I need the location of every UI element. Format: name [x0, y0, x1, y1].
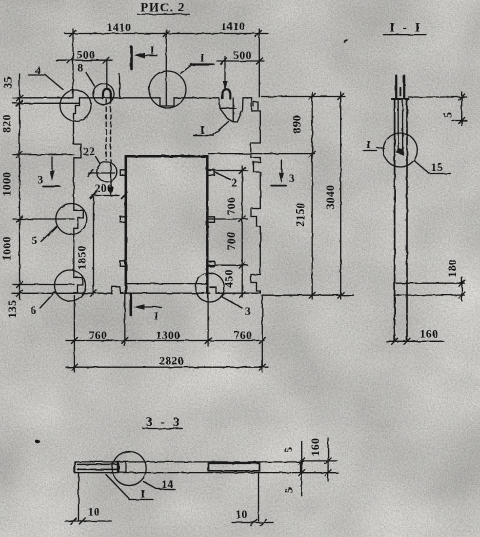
hidden loop axis (dashed pair) — [105, 100, 107, 161]
svg-text:820: 820 — [2, 114, 14, 132]
detail balloon 6 — [55, 270, 86, 301]
I-I label 15 leader — [414, 161, 429, 174]
svg-text:2820: 2820 — [159, 356, 184, 368]
I-I left wall — [394, 99, 396, 340]
right dims extension top — [262, 96, 346, 98]
I-I top cap — [392, 98, 409, 100]
unidentified short extension near loop 8 — [119, 74, 121, 98]
svg-text:180: 180 — [447, 259, 459, 277]
3-3 hanging rod right — [258, 473, 260, 521]
leader label 6 — [40, 292, 55, 309]
dim 890/2150 vertical — [311, 92, 313, 299]
svg-text:3 - 3: 3 - 3 — [146, 415, 181, 429]
svg-text:4: 4 — [35, 65, 41, 77]
top dim line 1410+1410 — [65, 33, 268, 35]
3-3 right end cap — [300, 462, 302, 473]
left edge keyway notch (detail 5) — [74, 210, 84, 277]
detail balloon 3 (bottom) — [195, 273, 224, 302]
svg-text:3: 3 — [245, 306, 251, 318]
svg-text:5: 5 — [284, 487, 296, 493]
I-I detail balloon — [383, 133, 417, 167]
svg-text:200: 200 — [95, 183, 113, 195]
svg-text:5: 5 — [443, 112, 455, 118]
section mark 3 right: arrow down — [280, 160, 282, 178]
stray mark top — [344, 40, 347, 42]
svg-text:2: 2 — [231, 178, 237, 190]
leader label 3 bottom — [222, 297, 243, 309]
leader label 8 — [86, 73, 95, 87]
3-3 strip bottom line — [75, 472, 301, 474]
right edge keyway notch (mid) — [251, 209, 260, 275]
left edge jog 22 — [74, 144, 82, 210]
bottom dim line 760/1300/760 — [66, 340, 264, 342]
panel right edge with rebate — [252, 98, 261, 143]
right edge notch A — [251, 143, 260, 162]
svg-text:I: I — [200, 53, 205, 65]
svg-text:РИС. 2: РИС. 2 — [141, 1, 186, 15]
svg-text:500: 500 — [233, 50, 251, 62]
3-3 hanging rod left — [78, 473, 80, 520]
section mark I bottom: bar — [130, 295, 133, 315]
svg-text:135: 135 — [7, 300, 19, 318]
3-3 right embedded plate — [209, 463, 260, 471]
3-3 dim 10 right — [232, 522, 273, 524]
detail balloon 5 — [56, 204, 87, 235]
svg-text:2150: 2150 — [295, 202, 307, 227]
3-3 left plate end detail — [118, 462, 127, 472]
left dim chain line — [19, 74, 21, 299]
svg-text:1410: 1410 — [107, 22, 132, 34]
svg-text:6: 6 — [30, 305, 36, 317]
detail balloon 8 — [93, 84, 114, 105]
detail balloon 1 (top edge) — [149, 71, 186, 108]
dim 500 right extension with arrow at loop — [224, 57, 226, 86]
panel left edge with corner rebate — [74, 98, 80, 144]
right edge inner corner mark — [254, 102, 259, 110]
svg-text:8: 8 — [77, 63, 83, 75]
dim 500 right — [217, 60, 264, 62]
3-3 label 14 leader — [144, 482, 161, 489]
svg-text:760: 760 — [234, 330, 252, 342]
door sill line — [127, 283, 207, 285]
svg-text:3: 3 — [37, 175, 43, 187]
I-I dim 180 line — [461, 277, 463, 301]
svg-text:10: 10 — [88, 507, 100, 519]
svg-text:I - I: I - I — [390, 21, 423, 35]
bottom extension verticals — [73, 296, 75, 373]
dim 200 line — [93, 195, 120, 197]
I-I right wall — [406, 99, 408, 341]
svg-text:10: 10 — [235, 509, 247, 521]
lifting loop right — [223, 89, 231, 98]
svg-text:I: I — [200, 125, 205, 137]
3-3 label I leader — [106, 475, 129, 499]
stray ink dot — [35, 440, 40, 444]
I-I label I leader — [363, 150, 377, 152]
left chain extension lines — [29, 74, 46, 76]
section mark I top-left: bar — [130, 47, 133, 69]
loop axis arrow to 200 line — [110, 162, 112, 193]
svg-text:1410: 1410 — [221, 21, 246, 33]
svg-text:1300: 1300 — [156, 330, 181, 342]
svg-text:1000: 1000 — [2, 172, 14, 197]
I-I dim 160 bottom line — [386, 340, 443, 342]
svg-text:160: 160 — [310, 438, 322, 456]
leader+bar label 1 funnel — [194, 135, 214, 137]
dim 500 left — [56, 59, 112, 61]
svg-text:15: 15 — [431, 162, 443, 174]
3-3 dim 160 vertical — [327, 438, 329, 481]
3-3 right end dim extensions — [301, 460, 338, 462]
leader label 22 — [96, 157, 100, 164]
svg-text:3: 3 — [289, 173, 295, 185]
svg-text:450: 450 — [224, 269, 236, 287]
I-I dim 180 extensions — [396, 282, 464, 284]
I-I loop bottom hook — [397, 149, 404, 156]
door tabs left side — [120, 170, 124, 176]
leader label 5 — [41, 227, 57, 242]
bottom dim line 2820 — [66, 366, 268, 368]
svg-text:160: 160 — [420, 329, 438, 341]
3-3 left end cap — [74, 462, 76, 473]
door chain extension lines — [209, 170, 248, 172]
right edge keyway notch (low) — [251, 275, 260, 294]
svg-text:3040: 3040 — [325, 185, 337, 210]
detail balloon 4 — [60, 90, 91, 121]
I-I loop stub — [399, 88, 401, 96]
top edge recess (node 1) — [160, 98, 174, 106]
3-3 detail balloon — [112, 452, 146, 486]
3-3 dim 10 left — [65, 520, 112, 522]
leader label 2 — [216, 173, 231, 180]
dim 1850 vertical — [93, 196, 95, 296]
3-3 title underline — [143, 428, 182, 430]
bottom edge tab left — [112, 287, 121, 293]
door inner dim chain 700/700/450 — [241, 166, 243, 297]
svg-text:I: I — [367, 140, 372, 152]
section mark I bottom: arrow — [137, 306, 162, 308]
I-I dim 5: extension from top — [409, 96, 467, 98]
leader label 4 — [46, 75, 64, 90]
svg-text:1850: 1850 — [77, 245, 89, 270]
svg-text:700: 700 — [226, 232, 238, 250]
dim 3040 vertical — [340, 92, 342, 299]
detail balloon at 200 dim — [97, 162, 117, 182]
svg-text:I: I — [154, 311, 159, 323]
lifting loop 8 (left) — [103, 89, 111, 99]
door opening outline (thick) — [126, 156, 208, 293]
3-3 left embedded plate — [78, 463, 118, 465]
I-I loop wires above top — [395, 76, 397, 99]
section mark I top-left: arrow — [137, 55, 158, 57]
section mark 3 left: arrow down — [51, 157, 53, 176]
3-3 dim 5/5 vertical — [301, 442, 303, 496]
svg-text:5: 5 — [283, 446, 295, 452]
extension from door top corner — [209, 153, 315, 155]
dim 200 aux line through balloon — [89, 172, 115, 174]
top dim extension verticals — [72, 29, 74, 97]
I-I title underline — [383, 34, 426, 36]
loop recess funnel — [219, 98, 243, 122]
leader+bar label 1 top (to balloon 1) — [192, 63, 214, 65]
right edge notch B — [254, 162, 261, 209]
panel top edge — [80, 97, 252, 99]
svg-text:1000: 1000 — [2, 236, 14, 261]
3-3 strip top line — [75, 461, 301, 463]
left edge keyway notch (detail 6) — [74, 278, 83, 294]
left chain ticks — [17, 95, 23, 296]
svg-text:760: 760 — [89, 330, 107, 342]
I-I dim 5 line — [461, 92, 463, 126]
svg-text:500: 500 — [77, 50, 95, 62]
svg-text:890: 890 — [292, 115, 304, 133]
svg-text:5: 5 — [31, 235, 37, 247]
I-I embedded loop slot — [397, 100, 399, 150]
svg-text:14: 14 — [161, 479, 173, 491]
bottom edge step right (detail 3) — [210, 287, 216, 293]
svg-text:I: I — [150, 45, 155, 57]
svg-text:22: 22 — [83, 146, 95, 158]
panel bottom edge — [74, 292, 260, 294]
svg-text:700: 700 — [226, 197, 238, 215]
door tabs right side — [209, 170, 215, 176]
svg-text:35: 35 — [3, 76, 15, 88]
svg-text:I: I — [141, 489, 146, 501]
extension bottom right — [262, 294, 354, 296]
